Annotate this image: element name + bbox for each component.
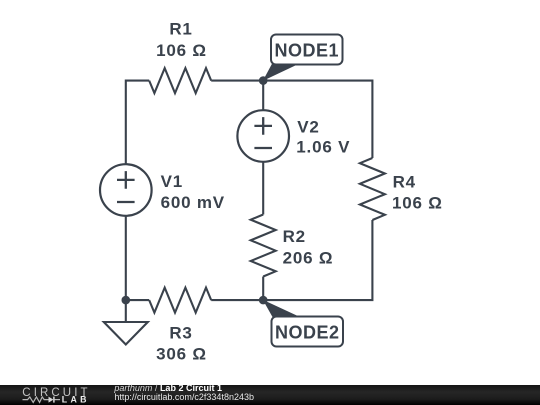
wire V2 bottom lead to R2 xyxy=(262,162,264,215)
resistor R2 xyxy=(251,215,276,277)
wire R3 left lead to ground junction xyxy=(126,299,149,301)
svg-text:NODE1: NODE1 xyxy=(275,41,340,61)
svg-text:206 Ω: 206 Ω xyxy=(283,248,334,267)
svg-text:R1: R1 xyxy=(169,20,192,39)
voltage source V1 xyxy=(100,164,152,216)
resistor R1 xyxy=(149,68,211,93)
wire V1 bottom lead xyxy=(125,216,127,300)
CircuitLab logo resistor zigzag xyxy=(23,397,49,403)
NODE1 flag box xyxy=(271,35,343,65)
resistor R3 xyxy=(149,288,211,313)
svg-text:106 Ω: 106 Ω xyxy=(156,41,207,60)
svg-text:306 Ω: 306 Ω xyxy=(156,345,207,364)
svg-text:http://circuitlab.com/c2f334t8: http://circuitlab.com/c2f334t8n243b xyxy=(114,392,254,402)
svg-text:V1: V1 xyxy=(161,172,183,191)
svg-text:106 Ω: 106 Ω xyxy=(392,194,443,213)
resistor R4 xyxy=(360,158,385,220)
V2 plus sign xyxy=(254,117,272,135)
node NODE2 junction dot xyxy=(259,296,268,305)
wire NODE2 left to R3 xyxy=(211,299,263,301)
NODE2 flag box xyxy=(272,317,344,347)
CircuitLab logo diode xyxy=(49,397,54,403)
voltage source V2 xyxy=(237,110,289,162)
V2 minus sign xyxy=(254,147,272,149)
wire top-left from V1 top up and right to R1 xyxy=(126,81,149,165)
svg-text:1.06 V: 1.06 V xyxy=(296,137,350,156)
svg-text:R2: R2 xyxy=(283,227,306,246)
wire V2 top lead xyxy=(262,81,264,111)
svg-text:V2: V2 xyxy=(297,117,319,136)
NODE1 flag pointer xyxy=(263,64,299,81)
wire NODE1 to top-right corner down to R4 xyxy=(263,81,372,158)
ground stub wire xyxy=(125,300,127,322)
wire R4 bottom lead down to bottom-right corner and left to NODE2 xyxy=(263,220,372,300)
V1 plus sign xyxy=(117,171,135,189)
node NODE1 junction dot xyxy=(259,76,268,85)
NODE2 flag pointer xyxy=(263,300,300,317)
ground junction dot xyxy=(122,296,131,305)
ground xyxy=(104,322,148,345)
wire R2 bottom lead to NODE2 xyxy=(262,277,264,301)
V1 minus sign xyxy=(117,201,135,203)
wire R1 right lead to NODE1 xyxy=(211,80,263,82)
svg-text:NODE2: NODE2 xyxy=(275,323,340,343)
svg-text:R3: R3 xyxy=(169,323,192,342)
svg-text:LAB: LAB xyxy=(62,395,90,405)
footer bar xyxy=(0,385,540,405)
svg-text:600 mV: 600 mV xyxy=(161,193,225,212)
svg-text:R4: R4 xyxy=(393,173,416,192)
